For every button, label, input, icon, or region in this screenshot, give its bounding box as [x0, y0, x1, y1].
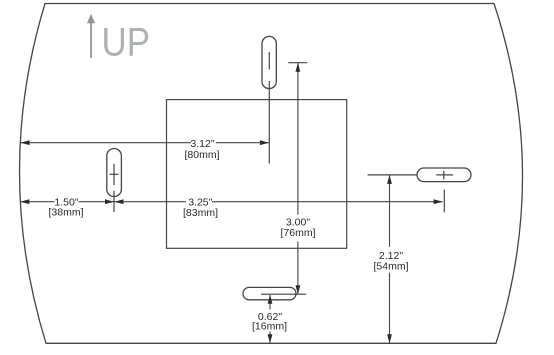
dimension 3.25" [83mm]	[115, 201, 443, 203]
right slot cross	[436, 171, 453, 179]
bottom mounting slot	[243, 287, 296, 299]
svg-text:[54mm]: [54mm]	[373, 261, 408, 273]
svg-text:[16mm]: [16mm]	[252, 321, 287, 333]
dimension 1.50" [38mm]	[20, 201, 113, 203]
dimension 3.00" [76mm]	[288, 62, 307, 64]
right slot extension line (left of slot)	[368, 174, 417, 176]
left slot centerline cross	[110, 164, 119, 212]
top slot centerline	[268, 52, 270, 164]
bottom slot centerline	[261, 293, 306, 295]
UP arrow	[87, 14, 95, 58]
top mounting slot	[262, 36, 276, 88]
wallplate rectangle	[167, 100, 347, 249]
left mounting slot	[107, 149, 122, 197]
dimension 0.62" [16mm]	[269, 295, 271, 344]
svg-text:UP: UP	[102, 21, 151, 65]
svg-text:[76mm]: [76mm]	[280, 227, 315, 239]
dimension 2.12" [54mm]	[389, 175, 391, 343]
svg-text:[83mm]: [83mm]	[183, 207, 218, 219]
svg-text:[38mm]: [38mm]	[48, 207, 83, 219]
right mounting slot	[417, 168, 471, 182]
dimension 3.12" [80mm]	[21, 142, 269, 144]
svg-text:[80mm]: [80mm]	[184, 149, 219, 161]
right slot extension tick (below slot)	[443, 190, 445, 213]
